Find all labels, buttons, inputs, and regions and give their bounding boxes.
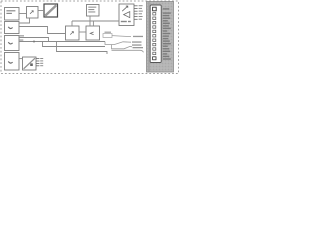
connector X1 pin 8 xyxy=(153,39,156,41)
clock module B xyxy=(27,7,39,19)
U1 pin 6 xyxy=(134,19,142,20)
connector X1 pin labels xyxy=(163,8,171,60)
U1 pin 4 xyxy=(134,13,142,14)
U1 pin 1 xyxy=(134,5,143,6)
connector X1 pin 9 xyxy=(153,43,156,45)
wire lower bus xyxy=(57,42,108,55)
line driver U1 Typ 5 xyxy=(119,4,134,26)
switch S2 xyxy=(112,45,133,49)
adapter module H xyxy=(23,57,37,70)
net label row 1 xyxy=(133,36,143,37)
connector X1 body xyxy=(150,5,161,63)
H pin d xyxy=(36,65,43,66)
connector X1 pin 12 xyxy=(153,57,156,60)
U1 pin 5 xyxy=(134,16,143,17)
connector panel (gray) xyxy=(147,2,174,73)
wire to panel xyxy=(112,50,144,52)
wire F to G xyxy=(79,31,86,33)
phone port unit 3 xyxy=(5,53,20,71)
wire B down hook xyxy=(19,18,30,23)
net label a1 xyxy=(20,35,25,36)
net label row 2 xyxy=(132,41,142,42)
wire port1 to F xyxy=(19,27,66,34)
connector X1 pin 3 xyxy=(153,17,156,19)
H pin b xyxy=(36,60,43,61)
config module D xyxy=(87,5,100,17)
system bus unit xyxy=(5,8,20,21)
H pin c xyxy=(36,63,43,64)
connector X1 pin 6 xyxy=(153,30,156,32)
wire G top stub xyxy=(92,21,94,26)
wire F top stub xyxy=(71,21,73,26)
connector X1 pin 1 xyxy=(153,7,157,11)
dashed enclosure border xyxy=(1,1,179,74)
connector X1 pin 11 xyxy=(153,52,156,54)
U1 pin 3 xyxy=(134,11,143,12)
wire b1 xyxy=(19,41,105,43)
wire B to C xyxy=(38,10,44,12)
net label row 3 xyxy=(132,44,142,45)
connector X1 pin 2 xyxy=(153,13,156,15)
U1 pin 2 xyxy=(134,7,142,10)
wire stack to H xyxy=(19,58,23,60)
wire D to G xyxy=(89,16,91,26)
wire b1 drop xyxy=(43,42,106,47)
H pin a xyxy=(36,58,43,59)
hatched module C xyxy=(44,4,58,17)
connector X1 pin 10 xyxy=(153,48,156,50)
wire a1 xyxy=(19,38,49,42)
phone port unit 2 xyxy=(5,36,20,51)
connector X1 pin 7 xyxy=(153,35,156,37)
connector X1 pin 5 xyxy=(153,26,156,28)
switch S1 xyxy=(105,42,131,45)
junction on wire b1 xyxy=(33,41,35,43)
wire bus to B xyxy=(19,13,27,15)
connector X1 pin 4 xyxy=(153,21,156,23)
net label b1 xyxy=(20,40,24,41)
interface module G xyxy=(86,26,100,40)
phone port unit 1 xyxy=(5,22,20,34)
relay contact K1 xyxy=(103,32,131,38)
interface module F xyxy=(66,26,80,40)
net label row 4 xyxy=(133,47,144,48)
wire bus to U1 xyxy=(72,20,119,22)
